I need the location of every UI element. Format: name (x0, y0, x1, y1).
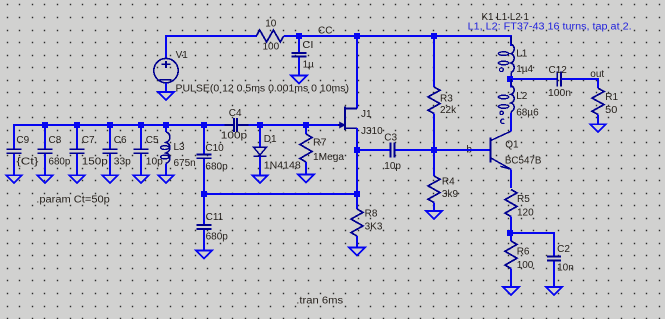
resistor R1 (592, 88, 604, 114)
wire R4 top (433, 150, 435, 176)
wire C5 stubs (140, 127, 142, 175)
wire C10 top (203, 125, 205, 154)
node junction CC-CI (296, 33, 302, 39)
svg-text:10: 10 (265, 19, 277, 30)
svg-text:{Ct}: {Ct} (16, 156, 39, 167)
svg-text:R8: R8 (365, 208, 378, 219)
resistor Rtop (256, 30, 283, 42)
ground D1 (252, 175, 268, 183)
resistor R3 (428, 87, 440, 114)
svg-text:.tran 6ms: .tran 6ms (296, 296, 343, 307)
wire C8 stubs (44, 127, 46, 175)
phase dot L1 (500, 68, 504, 72)
svg-text:R6: R6 (517, 247, 530, 258)
svg-text:100: 100 (517, 260, 534, 271)
wire R8 bottom (356, 236, 358, 248)
inductor L3 (166, 132, 170, 164)
node junction bus-L3 (163, 122, 169, 128)
svg-text:L2: L2 (516, 91, 528, 102)
wire L3 stubs (165, 126, 167, 175)
node junction bus-C10 (201, 122, 207, 128)
wire R3 top (433, 36, 435, 87)
node junction bus (107, 122, 113, 128)
resistor R8 (351, 209, 363, 236)
svg-text:68µ6: 68µ6 (516, 108, 539, 119)
svg-text:L1, L2: FT37-43 16 turns, tap: L1, L2: FT37-43 16 turns, tap at 2. (468, 22, 632, 33)
svg-text:C6: C6 (114, 135, 127, 146)
wire C9 stubs (13, 127, 15, 175)
node junction rail-R3 (431, 33, 437, 39)
svg-text:680p: 680p (205, 162, 228, 173)
ground C8 (37, 175, 53, 183)
capacitor C2 (547, 257, 561, 261)
svg-text:R4: R4 (442, 177, 455, 188)
svg-text:C5: C5 (146, 135, 159, 146)
capacitor C6 (103, 149, 118, 153)
resistor R6 (505, 241, 517, 269)
node junction mid-R8 (354, 191, 360, 197)
svg-text:D1: D1 (264, 134, 277, 145)
svg-text:22k: 22k (440, 105, 457, 116)
svg-text:out: out (590, 69, 604, 80)
svg-text:1µ: 1µ (303, 60, 315, 71)
capacitor C8 (38, 149, 53, 153)
ground C7 (69, 175, 85, 183)
wire C3 right (395, 149, 434, 151)
svg-text:C7: C7 (82, 135, 95, 146)
wire D1 bottom (259, 156, 261, 175)
node junction tap (507, 76, 513, 82)
svg-text:R5: R5 (517, 194, 530, 205)
capacitor CI (292, 53, 307, 57)
wire R1 bottom (597, 115, 599, 125)
node junction b (431, 147, 437, 153)
svg-text:100p: 100p (221, 131, 248, 142)
ground C6 (102, 175, 118, 183)
ground C5 (133, 175, 149, 183)
svg-text:120: 120 (517, 208, 534, 219)
svg-text:R7: R7 (313, 138, 327, 149)
svg-text:C12: C12 (549, 65, 568, 76)
svg-text:100n: 100n (548, 88, 571, 99)
svg-text:C8: C8 (49, 135, 62, 146)
svg-text:J310: J310 (361, 126, 383, 137)
capacitor C3 (390, 143, 394, 158)
capacitor C7 (70, 149, 85, 153)
svg-text:BC547B: BC547B (505, 156, 542, 167)
svg-text:C3: C3 (384, 132, 397, 143)
svg-text:680p: 680p (49, 156, 71, 167)
ground L3 (158, 175, 174, 183)
svg-text:R3: R3 (440, 94, 453, 105)
svg-text:C2: C2 (557, 244, 570, 255)
wire C2 bottom (553, 261, 555, 287)
wire J1 source (356, 128, 358, 150)
ground C11 (196, 251, 212, 259)
capacitor C4 (234, 118, 237, 132)
node junction source-C3 (354, 147, 360, 153)
resistor R5 (505, 190, 517, 217)
transistor Q1 (490, 137, 492, 162)
node junction bus (138, 122, 144, 128)
wire C12 to R1 (562, 79, 599, 88)
svg-text:Q1: Q1 (505, 139, 519, 150)
wire C3 left (357, 149, 389, 151)
voltage source V1 (154, 58, 178, 82)
ground C9 (6, 175, 22, 183)
node junction bus-R7 (303, 122, 309, 128)
wire top rail (166, 36, 511, 58)
svg-text:100: 100 (262, 42, 279, 53)
ground R7 (298, 175, 314, 183)
svg-text:CC: CC (318, 25, 332, 36)
svg-text:C11: C11 (206, 212, 224, 223)
wire R5 bottom (510, 217, 512, 234)
svg-text:1µ4: 1µ4 (516, 64, 533, 75)
svg-text:3K3: 3K3 (365, 221, 383, 232)
wire V1 bottom (165, 83, 167, 92)
wire R8 top (356, 194, 358, 209)
wire R6 bottom (510, 269, 512, 288)
svg-text:1N4148: 1N4148 (264, 161, 301, 172)
ground C2 (546, 287, 562, 295)
svg-text:.param Ct=50p: .param Ct=50p (36, 195, 110, 206)
svg-text:R1: R1 (605, 92, 618, 103)
inductor L1 (511, 44, 514, 72)
wire C11 bottom (203, 230, 205, 251)
wire CI stub (298, 36, 300, 76)
svg-text:C10: C10 (205, 143, 224, 154)
wire tap to C12 (510, 77, 557, 88)
svg-text:L3: L3 (174, 142, 186, 153)
ground R6 (503, 287, 519, 295)
wire mid horizontal (204, 193, 357, 195)
ground R1 (590, 124, 606, 132)
wire bus gate (14, 125, 338, 149)
diode D1 (253, 147, 266, 155)
capacitor C12 (557, 71, 561, 86)
wire R3 bottom (433, 114, 435, 151)
svg-text:V1: V1 (176, 50, 189, 61)
phase dot L2 (500, 111, 503, 114)
wire J1 source to mid (356, 150, 358, 194)
wire R7 top (305, 125, 307, 134)
node junction bus (74, 122, 80, 128)
svg-text:10n: 10n (557, 263, 574, 274)
svg-text:J1: J1 (361, 109, 372, 120)
wire C7 stubs (76, 127, 78, 175)
wire emitter (510, 169, 512, 188)
svg-text:PULSE(0 12 0.5ms 0.001ms 0 10m: PULSE(0 12 0.5ms 0.001ms 0 10ms) (176, 83, 350, 94)
wire J1 drain riser (356, 36, 358, 109)
transistor J1 (345, 107, 357, 131)
wire R4 bottom (433, 203, 435, 212)
svg-text:L1: L1 (516, 49, 528, 60)
wire R6 top (510, 233, 512, 241)
capacitor C10 (197, 155, 212, 159)
wire D1 top (259, 125, 261, 147)
resistor R4 (428, 176, 440, 203)
capacitor C5 (134, 149, 149, 153)
node junction rail-J1 (354, 33, 360, 39)
node junction R5-R6-C2 (507, 230, 513, 236)
wire C11 top (203, 194, 205, 224)
wire collector (510, 113, 512, 131)
capacitor C11 (197, 225, 212, 229)
node junction C10-C11 (201, 191, 207, 197)
ground CI (291, 76, 307, 84)
svg-text:33p: 33p (114, 156, 131, 167)
wire R7 bottom (305, 162, 307, 175)
node junction bus-D1 (257, 122, 263, 128)
ground R4 (426, 211, 442, 219)
wire junction to C2 (510, 233, 554, 256)
svg-text:680p: 680p (206, 232, 229, 243)
svg-text:CI: CI (302, 40, 313, 51)
wire C10 bottom (203, 159, 205, 194)
inductor L2 (511, 86, 514, 112)
svg-text:675n: 675n (174, 158, 196, 169)
svg-text:10p: 10p (384, 161, 401, 172)
svg-text:C4: C4 (229, 108, 242, 119)
resistor R7 (300, 134, 312, 162)
wire C6 stubs (109, 127, 111, 175)
ground V1 (158, 92, 174, 100)
svg-text:1Mega: 1Mega (313, 152, 344, 163)
wire base (434, 149, 490, 151)
svg-text:C9: C9 (16, 135, 29, 146)
svg-text:3k9: 3k9 (442, 189, 459, 200)
ground R8 (349, 248, 365, 256)
node junction bus (42, 122, 48, 128)
svg-text:50: 50 (605, 105, 618, 116)
svg-text:150p: 150p (82, 156, 109, 167)
capacitor C9 (7, 149, 22, 153)
